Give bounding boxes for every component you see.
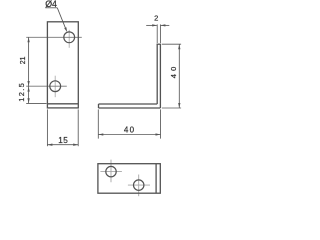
svg-text:15: 15 [58,136,68,145]
svg-text:40: 40 [124,126,136,135]
svg-text:40: 40 [169,64,178,79]
svg-text:12.5: 12.5 [17,82,26,102]
svg-text:Ø4: Ø4 [45,0,57,9]
svg-text:2: 2 [154,13,158,22]
svg-text:21: 21 [20,56,27,64]
